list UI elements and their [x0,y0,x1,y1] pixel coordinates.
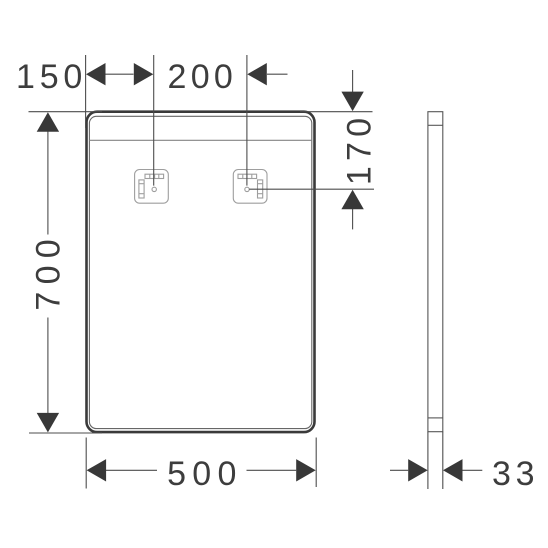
svg-text:170: 170 [341,113,379,185]
svg-text:500: 500 [167,455,243,493]
svg-text:700: 700 [30,232,68,311]
svg-text:150: 150 [16,58,87,96]
svg-text:200: 200 [168,58,238,96]
svg-text:33: 33 [492,455,539,493]
